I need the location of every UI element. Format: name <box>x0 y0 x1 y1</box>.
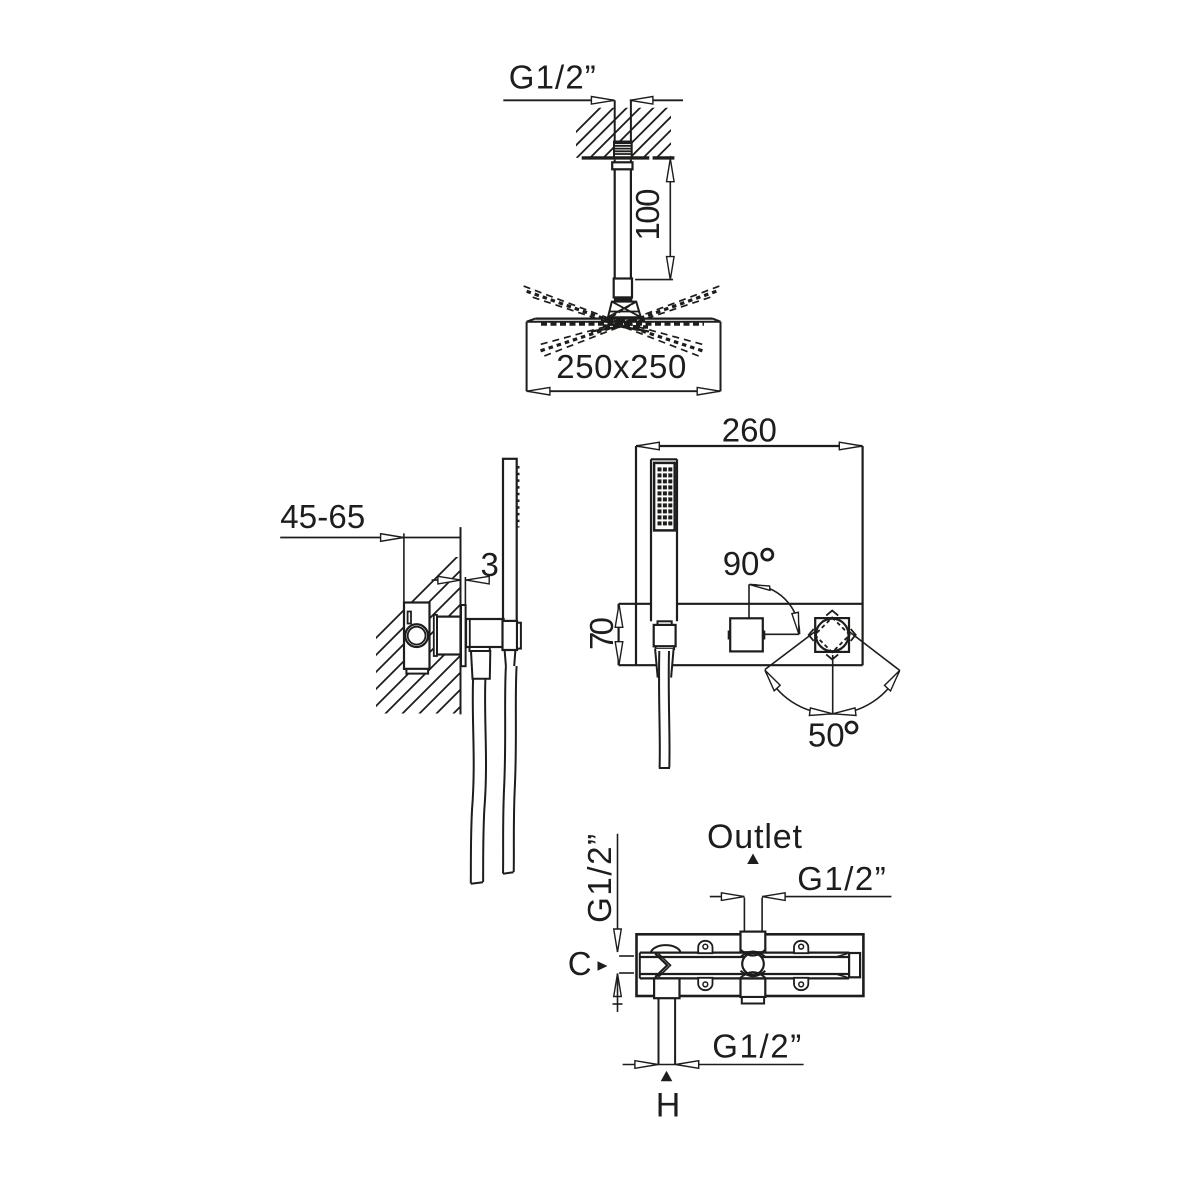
svg-text:50: 50 <box>808 716 845 753</box>
svg-text:H: H <box>656 1087 681 1125</box>
svg-text:90: 90 <box>723 545 760 582</box>
svg-text:C: C <box>568 945 592 982</box>
svg-text:250x250: 250x250 <box>556 348 686 385</box>
svg-text:G1/2”: G1/2” <box>509 59 596 96</box>
svg-text:100: 100 <box>629 189 666 241</box>
svg-text:G1/2”: G1/2” <box>581 834 618 923</box>
svg-text:G1/2”: G1/2” <box>797 860 886 897</box>
svg-text:G1/2”: G1/2” <box>712 1027 801 1064</box>
svg-text:70: 70 <box>583 617 620 650</box>
svg-text:45-65: 45-65 <box>280 498 365 535</box>
svg-text:Outlet: Outlet <box>707 818 803 856</box>
svg-text:260: 260 <box>722 412 777 449</box>
